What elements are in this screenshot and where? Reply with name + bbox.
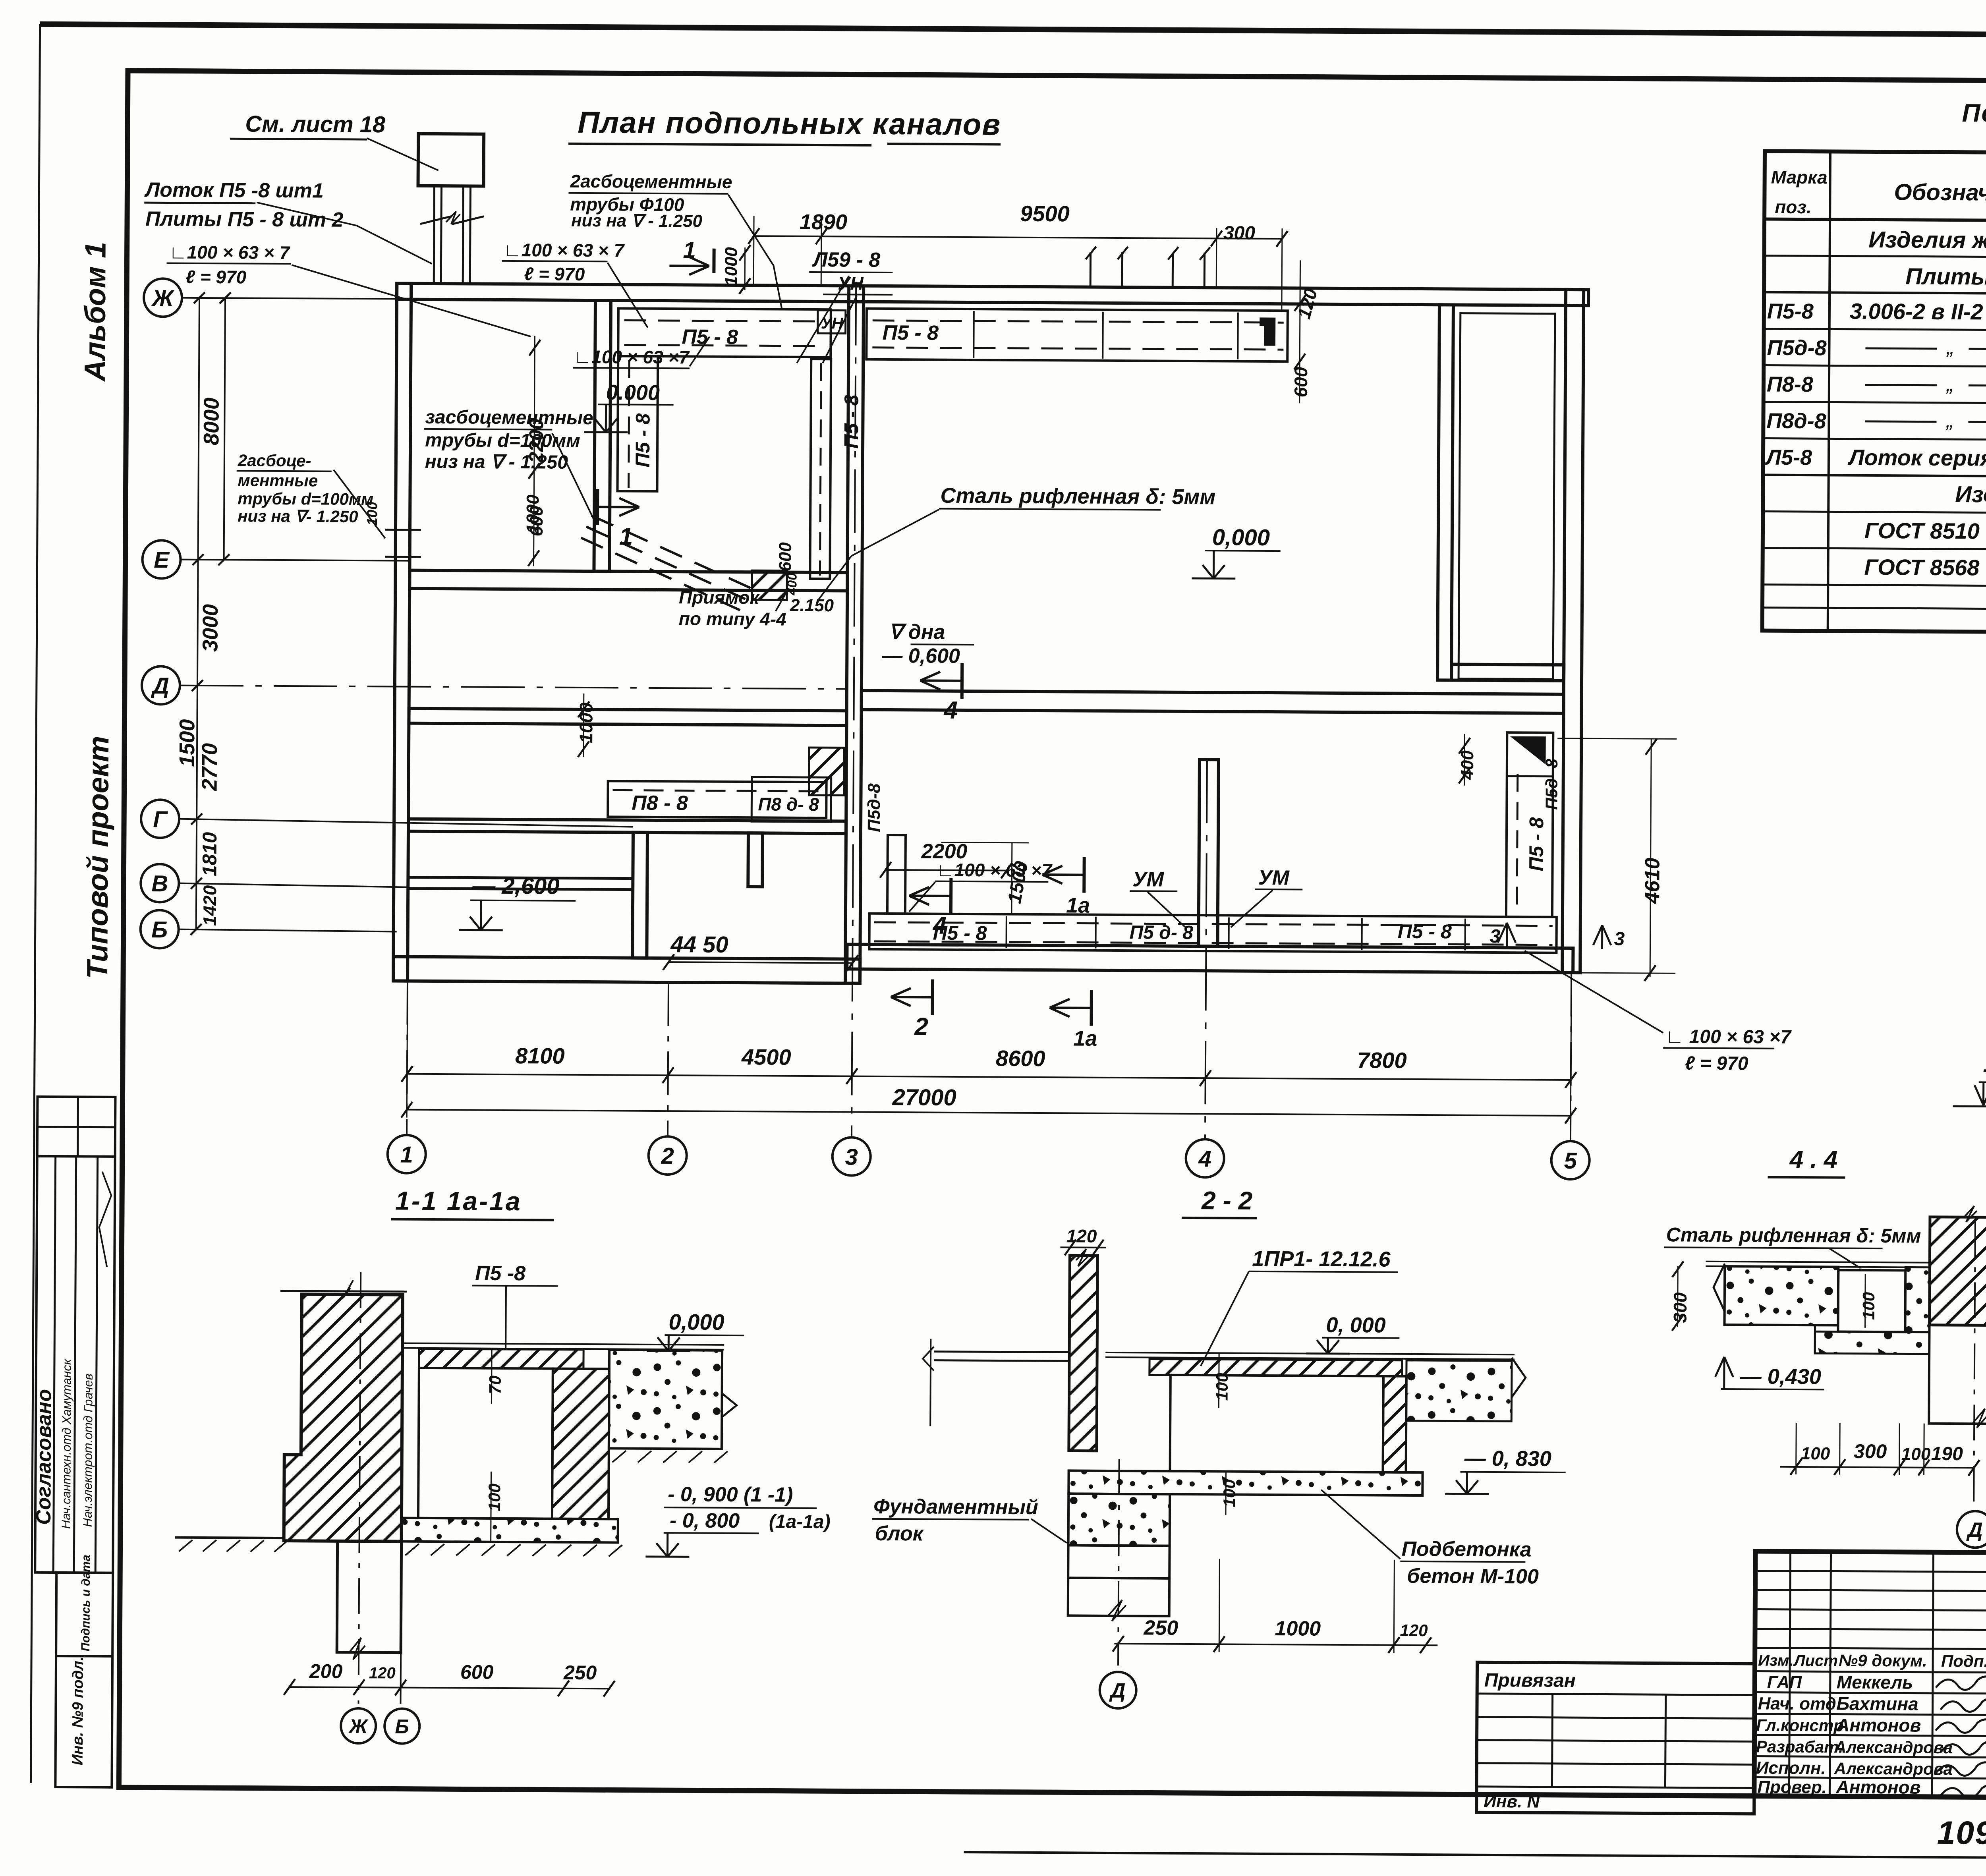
- three dashed pipe runs to pit: [591, 516, 762, 593]
- svg-text:0,000: 0,000: [668, 1309, 724, 1335]
- svg-text:Лоток П5 -8 шт1: Лоток П5 -8 шт1: [144, 178, 324, 202]
- plan: lower-left partition vertical: [632, 833, 647, 958]
- section 2-2 channel right wall hatched: [1383, 1376, 1406, 1472]
- section 4-4 concrete right strip: [1905, 1267, 1930, 1332]
- attachment box left of title block: [1476, 1662, 1755, 1814]
- top dim line 1890 / 9500 / 300: [754, 236, 1282, 239]
- section 1-1 channel void: [418, 1368, 553, 1519]
- svg-text:Подп.: Подп.: [1941, 1652, 1986, 1671]
- svg-text:П5д-8: П5д-8: [1767, 336, 1827, 360]
- section 1-1 bubble Ж: [341, 1708, 376, 1743]
- svg-text:120: 120: [1066, 1225, 1097, 1246]
- channel П5-8 along top wall, right run: [866, 309, 1288, 362]
- svg-text:4: 4: [1198, 1146, 1211, 1172]
- svg-text:1099 - 01: 1099 - 01: [1937, 1815, 1986, 1852]
- channel П5-8 left leg down: [617, 356, 658, 491]
- svg-text:8100: 8100: [515, 1043, 565, 1068]
- svg-text:70: 70: [486, 1376, 504, 1394]
- svg-text:Сталь рифленная δ: 5мм: Сталь рифленная δ: 5мм: [1666, 1223, 1921, 1247]
- svg-text:8000: 8000: [199, 398, 224, 445]
- svg-text:2: 2: [661, 1143, 674, 1169]
- stack box (см лист 18): [418, 134, 484, 186]
- svg-text:- 0, 900 (1 -1): - 0, 900 (1 -1): [668, 1483, 793, 1507]
- svg-text:УН: УН: [838, 273, 864, 294]
- svg-text:3: 3: [1490, 926, 1501, 947]
- section 1-1 bubble Б: [384, 1708, 419, 1743]
- svg-text:100: 100: [1901, 1444, 1931, 1464]
- svg-text:УН: УН: [821, 315, 844, 332]
- svg-text:Изм.: Изм.: [1758, 1652, 1794, 1669]
- section 1-1 foundation below: [337, 1541, 401, 1653]
- svg-text:— 0,600: — 0,600: [881, 644, 960, 668]
- title block left grid horizontals: [1755, 1571, 1986, 1572]
- svg-text:2.150: 2.150: [790, 596, 834, 616]
- plan: wall under shaft room: [1451, 664, 1564, 680]
- title block outer: [1754, 1551, 1986, 1800]
- section 4-4 bottom dims: [1780, 1467, 1974, 1468]
- axis Е bubble: [142, 540, 181, 579]
- svg-text:П5д-8: П5д-8: [864, 783, 884, 832]
- svg-text:Меккель: Меккель: [1837, 1672, 1913, 1693]
- section 2-2 channel void: [1170, 1375, 1383, 1472]
- plan: interior wall on axis Д: [409, 709, 846, 726]
- section 2-2 cover slab hatched: [1149, 1359, 1402, 1376]
- section 4-4 bubble Д: [1957, 1511, 1986, 1548]
- svg-text:Плиты П5 - 8 шт 2: Плиты П5 - 8 шт 2: [145, 207, 344, 232]
- svg-text:2асбоце-: 2асбоце-: [238, 451, 311, 470]
- svg-text:120: 120: [369, 1664, 396, 1682]
- plan: interior wall upper-left vertical: [594, 300, 611, 571]
- plan: hall right partition wall: [1437, 305, 1453, 680]
- svg-text:„: „: [1946, 335, 1954, 359]
- left dim chain lines: [196, 298, 199, 929]
- svg-text:ℓ = 970: ℓ = 970: [1685, 1053, 1748, 1074]
- svg-text:5: 5: [1564, 1148, 1577, 1174]
- column bubble 3: [832, 1137, 871, 1176]
- svg-text:П5 - 8: П5 - 8: [632, 413, 654, 467]
- axis Е line: [181, 560, 410, 561]
- column bubble 4: [1186, 1139, 1224, 1178]
- svg-text:Перечень элементов: Перечень элементов: [1962, 99, 1986, 129]
- svg-text:7800: 7800: [1357, 1047, 1407, 1073]
- svg-text:низ на ∇- 1.250: низ на ∇- 1.250: [238, 506, 358, 526]
- svg-text:∇ дна: ∇ дна: [889, 620, 945, 644]
- svg-text:Д: Д: [1109, 1679, 1126, 1702]
- svg-text:1420: 1420: [199, 885, 220, 926]
- svg-text:„: „: [1946, 372, 1954, 396]
- svg-text:См. лист 18: См. лист 18: [245, 111, 386, 138]
- svg-text:Изделия железобетонные сборны: Изделия железобетонные сборные: [1868, 227, 1986, 255]
- svg-text:4500: 4500: [741, 1044, 791, 1070]
- svg-text:200: 200: [309, 1660, 343, 1682]
- section 1-1 wall hatched: [284, 1294, 403, 1542]
- channel П8-8 horizontal run: [608, 781, 826, 818]
- svg-text:Инв. N: Инв. N: [1484, 1792, 1540, 1812]
- plan: interior wall lower-left horizontal: [408, 819, 846, 834]
- svg-text:1: 1: [683, 237, 696, 263]
- pit приямок hatched: [752, 570, 787, 600]
- svg-text:1000: 1000: [1275, 1617, 1321, 1640]
- axis Г line: [179, 819, 633, 827]
- svg-text:Нач.сантехн.отд Хамутанск: Нач.сантехн.отд Хамутанск: [59, 1358, 74, 1529]
- axis В bubble: [141, 864, 179, 902]
- svg-text:1а: 1а: [1066, 893, 1090, 917]
- svg-text:2асбоцементные: 2асбоцементные: [570, 171, 732, 192]
- svg-text:0,000: 0,000: [1212, 524, 1270, 551]
- section mark 2: [931, 980, 934, 1015]
- svg-text:ℓ = 970: ℓ = 970: [185, 267, 247, 288]
- svg-text:100: 100: [364, 502, 380, 526]
- column axis 2 line: [668, 982, 668, 1136]
- svg-text:3: 3: [845, 1144, 858, 1170]
- label 100x63x7 l=970 bottom right leader: [1524, 951, 1663, 1033]
- column axis 1 line: [407, 981, 408, 1135]
- svg-text:УМ: УМ: [1132, 868, 1165, 891]
- bottom channel П5-8 run (axes 3-5): [869, 914, 1556, 953]
- title block left grid verticals: [1789, 1551, 1790, 1796]
- element list table grid: [1762, 151, 1986, 635]
- svg-text:Л59 - 8: Л59 - 8: [811, 248, 880, 272]
- section 2-2 wall hatched: [1069, 1255, 1098, 1451]
- svg-text:44 50: 44 50: [670, 931, 728, 958]
- section 2-2 foundation block: [1068, 1493, 1170, 1546]
- svg-text:П5 -8: П5 -8: [475, 1262, 525, 1285]
- svg-text:Гл.констр: Гл.констр: [1756, 1716, 1844, 1735]
- svg-text:Инв. №9 подл.: Инв. №9 подл.: [70, 1657, 87, 1766]
- svg-text:по типу 4-4: по типу 4-4: [679, 608, 786, 629]
- svg-text:Нач. отд.: Нач. отд.: [1758, 1694, 1841, 1714]
- svg-text:300: 300: [1854, 1440, 1887, 1463]
- svg-text:2 - 2: 2 - 2: [1201, 1186, 1252, 1215]
- black wedge in right channel: [1511, 736, 1546, 764]
- svg-text:Антонов: Антонов: [1836, 1715, 1921, 1736]
- section 2-2 bottom slab concrete: [1068, 1470, 1422, 1495]
- svg-text:1ПР1- 12.12.6: 1ПР1- 12.12.6: [1252, 1247, 1391, 1271]
- section mark 4 upper: [960, 663, 964, 699]
- svg-text:4: 4: [943, 697, 958, 724]
- section 4-4 floor plate lines: [1706, 1262, 1930, 1263]
- svg-text:Лист: Лист: [1793, 1652, 1838, 1670]
- svg-text:Д: Д: [151, 673, 169, 699]
- svg-text:Д: Д: [1966, 1519, 1983, 1542]
- section 1-1 channel right wall hatched: [552, 1369, 609, 1519]
- section 1-1 axis lines: [358, 1272, 361, 1704]
- svg-text:Б: Б: [151, 917, 168, 943]
- svg-text:П8-8: П8-8: [1767, 373, 1813, 397]
- svg-text:0, 000: 0, 000: [1326, 1313, 1385, 1337]
- svg-text:Е: Е: [154, 547, 170, 573]
- svg-text:Провер.: Провер.: [1757, 1777, 1827, 1797]
- section 2-2 floor left: [934, 1352, 1069, 1352]
- svg-text:3: 3: [1614, 929, 1625, 950]
- svg-text:27000: 27000: [892, 1084, 956, 1111]
- svg-text:поз.: поз.: [1775, 197, 1812, 217]
- svg-text:ℓ = 970: ℓ = 970: [524, 263, 585, 284]
- section 1-1 cover slab hatched: [419, 1349, 583, 1369]
- svg-text:П8д-8: П8д-8: [1766, 409, 1826, 433]
- svg-text:— 0,430: — 0,430: [1740, 1364, 1821, 1389]
- section marks 1а: [1082, 857, 1086, 893]
- column axis 3 line: [852, 282, 856, 1138]
- svg-text:Антонов: Антонов: [1835, 1777, 1920, 1798]
- axis Б bubble: [140, 910, 179, 949]
- plan: bottom wall (axes 3-5): [847, 944, 1573, 973]
- svg-text:— 2,600: — 2,600: [472, 873, 560, 899]
- column bubble 5: [1551, 1141, 1590, 1180]
- dim line over 1500: [941, 842, 1029, 843]
- svg-text:1810: 1810: [198, 832, 221, 876]
- svg-text:1000: 1000: [523, 495, 543, 534]
- svg-text:Ж: Ж: [151, 285, 175, 311]
- svg-text:блок: блок: [875, 1522, 924, 1546]
- right channel top cell П5д-8: [1507, 732, 1553, 777]
- svg-text:ГАП: ГАП: [1767, 1673, 1802, 1692]
- svg-text:250: 250: [1143, 1616, 1178, 1639]
- section mark 4 lower: [949, 878, 952, 914]
- svg-text:4: 4: [932, 912, 947, 939]
- axis Ж line: [182, 298, 400, 299]
- svg-text:- 0,800: - 0,800: [1983, 1057, 1986, 1081]
- svg-text:трубы d=100мм: трубы d=100мм: [238, 489, 373, 508]
- svg-text:УМ: УМ: [1258, 866, 1290, 889]
- svg-text:Изделия металлические: Изделия металлические: [1955, 481, 1986, 509]
- svg-text:П5 - 8: П5 - 8: [882, 321, 939, 345]
- section 4-4 channel void: [1838, 1270, 1905, 1332]
- svg-text:Подпись и дата: Подпись и дата: [79, 1555, 93, 1651]
- svg-text:1: 1: [400, 1142, 413, 1167]
- fold mark dashed bottom: [1113, 1853, 1739, 1856]
- plan: wall on axis 3: [845, 286, 864, 983]
- svg-text:4 . 4: 4 . 4: [1789, 1146, 1838, 1174]
- svg-text:1-1 1а-1а: 1-1 1а-1а: [395, 1186, 522, 1216]
- svg-text:бетон М-100: бетон М-100: [1407, 1565, 1539, 1588]
- svg-text:- 0, 800: - 0, 800: [670, 1509, 740, 1532]
- svg-text:П5 - 8: П5 - 8: [1525, 817, 1548, 871]
- svg-text:Привязан: Привязан: [1484, 1670, 1576, 1691]
- plan: hall middle wall stub: [1199, 759, 1219, 946]
- svg-text:100: 100: [1801, 1444, 1830, 1463]
- svg-text:Г: Г: [153, 806, 168, 832]
- svg-text:Обозначение: Обозначение: [1894, 179, 1986, 206]
- svg-text:ментные: ментные: [238, 471, 318, 490]
- plan: right duct shaft room: [1459, 313, 1555, 679]
- section 1-1 ground line left: [175, 1538, 284, 1538]
- svg-text:9500: 9500: [1020, 201, 1070, 226]
- signatures squiggles: [1936, 1676, 1986, 1690]
- approval stamp cells (top): [37, 1097, 116, 1157]
- svg-text:300: 300: [1223, 222, 1256, 243]
- svg-text:ГОСТ 8510 - 72: ГОСТ 8510 - 72: [1864, 518, 1986, 544]
- section 2-2 foundation lower: [1068, 1578, 1169, 1616]
- channel joint dividers top run: [973, 311, 975, 358]
- column bubble 2: [648, 1136, 687, 1175]
- svg-text:600: 600: [460, 1661, 494, 1683]
- svg-text:Согласовано: Согласовано: [32, 1389, 56, 1525]
- svg-text:Типовой проект: Типовой проект: [81, 736, 115, 979]
- plan: top exterior wall: [397, 284, 1588, 306]
- svg-text:2770: 2770: [198, 743, 222, 791]
- stamp signatures: [99, 1172, 111, 1267]
- svg-text:Альбом 1: Альбом 1: [78, 242, 112, 382]
- svg-text:600: 600: [775, 542, 795, 572]
- svg-text:3000: 3000: [198, 604, 222, 652]
- svg-text:Б: Б: [395, 1716, 409, 1738]
- svg-text:8600: 8600: [996, 1045, 1045, 1071]
- section 2-2 bubble Д: [1099, 1672, 1136, 1708]
- witness drops to chain: [407, 981, 408, 1118]
- axis В line: [179, 883, 408, 887]
- plan: wall on axis В lower-left: [408, 877, 633, 890]
- svg-text:0.000: 0.000: [606, 381, 660, 405]
- section 4-4 slab concrete left: [1725, 1266, 1839, 1325]
- svg-text:Бахтина: Бахтина: [1836, 1693, 1918, 1714]
- right vertical channel П5-8: [1506, 732, 1553, 917]
- wall recess marks on top wall: [1090, 252, 1092, 287]
- svg-text:Нач.электрот.отд Грачев: Нач.электрот.отд Грачев: [81, 1374, 95, 1527]
- svg-text:Подбетонка: Подбетонка: [1401, 1538, 1531, 1561]
- svg-text:Сталь рифленная δ: 5мм: Сталь рифленная δ: 5мм: [940, 484, 1215, 509]
- svg-text:П8 д- 8: П8 д- 8: [758, 794, 819, 815]
- channel П8д-8 box: [752, 777, 831, 822]
- svg-text:190: 190: [1931, 1443, 1963, 1464]
- svg-text:1000: 1000: [721, 247, 741, 286]
- stamp cell Инв № подл: [55, 1656, 112, 1787]
- svg-text:П8 - 8: П8 - 8: [632, 792, 688, 815]
- section 1-1 bottom dims: [290, 1687, 609, 1689]
- svg-text:100: 100: [485, 1484, 504, 1511]
- svg-text:Приямок: Приямок: [679, 587, 760, 608]
- svg-text:100: 100: [1213, 1373, 1231, 1401]
- svg-text:∟ 100 × 63 ×7: ∟ 100 × 63 ×7: [1665, 1026, 1792, 1048]
- svg-text:400: 400: [1458, 750, 1477, 780]
- axis Г bubble: [141, 800, 180, 838]
- section mark 1 top: [712, 249, 715, 273]
- svg-text:∟100 × 63 × 7: ∟100 × 63 × 7: [504, 240, 625, 261]
- svg-text:В: В: [151, 871, 168, 896]
- svg-text:Александрова: Александрова: [1834, 1738, 1953, 1757]
- axis Д line: [180, 686, 847, 689]
- channel joint dividers bottom run: [1005, 916, 1007, 948]
- plan: right exterior wall: [1562, 290, 1584, 973]
- axis Ж bubble: [144, 278, 182, 317]
- plan: wall on axis Д (axes 3-5): [862, 691, 1564, 713]
- svg-text:Фундаментный: Фундаментный: [873, 1495, 1038, 1519]
- svg-text:Ж: Ж: [348, 1715, 369, 1737]
- svg-text:П5 - 8: П5 - 8: [1398, 920, 1452, 943]
- svg-text:∟100 × 63 ×7: ∟100 × 63 ×7: [936, 860, 1053, 881]
- plan: left exterior wall: [393, 284, 411, 981]
- small channel through left wall: [385, 529, 421, 531]
- section 4-4 wall hatched: [1930, 1217, 1986, 1325]
- plan: lower-left partition stub: [748, 833, 763, 887]
- sheet outer border: [40, 24, 1986, 38]
- svg-text:(1а-1а): (1а-1а): [769, 1511, 831, 1532]
- svg-text:засбоцементные: засбоцементные: [425, 407, 593, 429]
- column axis 5 line: [1571, 973, 1571, 1141]
- svg-text:— 0, 830: — 0, 830: [1464, 1447, 1551, 1471]
- svg-text:Разрабат.: Разрабат.: [1756, 1737, 1843, 1756]
- svg-text:∟100 × 63 ×7: ∟100 × 63 ×7: [574, 346, 690, 368]
- section 4-4 axis line: [1974, 1221, 1975, 1507]
- svg-text:600: 600: [1291, 367, 1311, 397]
- svg-text:1500: 1500: [175, 719, 199, 767]
- channel junction hatched: [809, 748, 844, 795]
- stamp cell Подпись и дата: [56, 1573, 113, 1656]
- svg-text:Лоток серия 3.006-28II-1: Лоток серия 3.006-28II-1: [1847, 445, 1986, 471]
- svg-text:низ на ∇ - 1.250: низ на ∇ - 1.250: [571, 211, 703, 231]
- svg-text:250: 250: [563, 1662, 597, 1684]
- section 2-2 bottom dims: [1114, 1644, 1437, 1645]
- svg-text:трубы d=100мм: трубы d=100мм: [425, 430, 580, 452]
- channel П5-8 along top wall, left run: [618, 308, 831, 357]
- plan: interior wall on axis E: [410, 570, 847, 591]
- svg-text:1890: 1890: [800, 210, 847, 234]
- svg-text:Исполн.: Исполн.: [1756, 1758, 1826, 1778]
- svg-text:4610: 4610: [1641, 858, 1664, 904]
- svg-text:„: „: [1945, 408, 1953, 432]
- dark corner mark at channel end: [1260, 318, 1275, 346]
- svg-text:100: 100: [1859, 1292, 1878, 1320]
- svg-text:Плиты: Плиты: [1905, 263, 1986, 290]
- column bubble 1: [387, 1135, 426, 1173]
- svg-text:1: 1: [619, 523, 633, 550]
- plan: bottom wall (axes 1-3): [393, 956, 860, 983]
- bottom channel left leg: [887, 835, 906, 914]
- svg-text:120: 120: [1400, 1621, 1428, 1640]
- svg-text:П5д- 8: П5д- 8: [1542, 758, 1561, 810]
- bottom dim chain row 1: [407, 1074, 1571, 1080]
- svg-text:П5 - 8: П5 - 8: [840, 394, 863, 448]
- stack pipes: [434, 186, 434, 284]
- svg-text:1а: 1а: [1073, 1026, 1097, 1050]
- vertical channel П5-8 on axis 3: [810, 359, 831, 579]
- УН box at channel corner: [818, 310, 846, 333]
- svg-text:2: 2: [914, 1013, 928, 1040]
- stamp block Согласовано: [35, 1156, 115, 1573]
- svg-text:ГОСТ 8568 - 77: ГОСТ 8568 - 77: [1864, 554, 1986, 580]
- svg-text:Л5-8: Л5-8: [1765, 446, 1812, 470]
- axis Д bubble: [142, 666, 180, 705]
- section 2-2 floor concrete right: [1406, 1360, 1512, 1421]
- svg-text:100: 100: [1220, 1479, 1238, 1507]
- axis Б line: [179, 929, 397, 932]
- section 1-1 bottom slab concrete: [402, 1518, 618, 1543]
- svg-text:№9 докум.: №9 докум.: [1839, 1651, 1927, 1670]
- svg-text:П5-8: П5-8: [1767, 299, 1814, 324]
- column axis 4 line: [1205, 759, 1207, 1139]
- svg-text:План подпольных каналов: План подпольных каналов: [578, 106, 1001, 142]
- section 4-4 wall below: [1929, 1325, 1986, 1424]
- svg-text:Марка: Марка: [1771, 167, 1828, 188]
- section 1-1 floor concrete right: [609, 1350, 722, 1449]
- svg-text:3.006-2 в II-2: 3.006-2 в II-2: [1850, 299, 1983, 325]
- section 2-2 axis line: [1118, 1459, 1119, 1665]
- section mark 1 mid: [596, 489, 599, 525]
- section 4-4 concrete bottom step: [1815, 1331, 1929, 1354]
- svg-text:Александрова: Александрова: [1834, 1759, 1953, 1779]
- svg-text:2200: 2200: [525, 419, 548, 464]
- svg-text:1000: 1000: [576, 702, 597, 743]
- svg-text:∟100 × 63 × 7: ∟100 × 63 × 7: [169, 242, 290, 263]
- bottom dim chain row 2 (27000): [407, 1110, 1571, 1116]
